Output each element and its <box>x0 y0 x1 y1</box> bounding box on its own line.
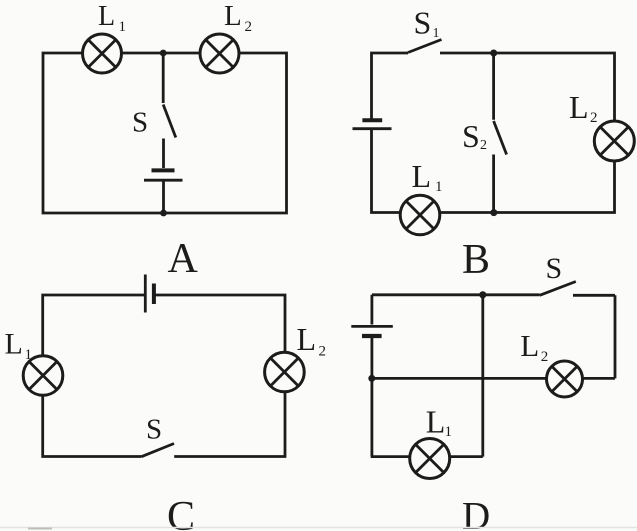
svg-text:L: L <box>569 89 589 125</box>
svg-text:1: 1 <box>119 19 127 35</box>
svg-text:C: C <box>167 494 195 531</box>
battery (circuit A) short thick plate <box>152 168 175 172</box>
wire: top wire right part (circuit D) <box>573 294 615 297</box>
svg-text:1: 1 <box>435 179 443 195</box>
node: bottom junction (circuit A) <box>160 210 167 217</box>
lamp L1 (circuit A) <box>83 34 122 73</box>
lamp L1 (circuit C) <box>23 356 63 396</box>
battery (circuit C) long thin plate <box>144 275 147 313</box>
svg-text:L: L <box>5 327 23 360</box>
svg-text:2: 2 <box>245 19 253 35</box>
svg-text:A: A <box>168 236 199 282</box>
svg-text:S: S <box>546 252 563 285</box>
svg-text:L: L <box>426 404 446 440</box>
svg-text:S: S <box>132 107 148 139</box>
wire: middle branch upper segment (circuit B) <box>492 53 495 120</box>
svg-text:S: S <box>462 118 480 154</box>
wire: middle vertical wire from top junction to bottom (circuit D) <box>481 295 484 457</box>
svg-text:B: B <box>462 237 490 283</box>
battery (circuit A) long thin plate <box>144 179 183 182</box>
lamp L2 (circuit C) <box>265 352 305 392</box>
node: top junction (circuit D) <box>479 291 486 298</box>
lamp L1 (circuit B) <box>400 195 440 235</box>
lamp L2 (circuit B) <box>594 121 634 161</box>
svg-text:1: 1 <box>445 424 453 440</box>
svg-text:L: L <box>98 1 115 32</box>
lamp L1 (circuit D) <box>410 439 450 479</box>
lamp L2 (circuit A) <box>200 34 239 73</box>
svg-text:2: 2 <box>319 343 327 359</box>
svg-text:S: S <box>414 5 432 41</box>
svg-text:1: 1 <box>25 347 33 363</box>
wire: outline of circuit B with gap for switch S1 <box>372 53 615 213</box>
switch S blade (circuit A) <box>163 105 176 138</box>
battery (circuit B) long thin plate <box>353 127 392 130</box>
battery (circuit C) short thick plate <box>152 284 156 305</box>
battery (circuit B) short thick plate <box>362 118 382 122</box>
wire: top wire left part (circuit D) <box>372 293 540 296</box>
wire: middle branch between switch and battery <box>162 139 165 169</box>
node: top junction (circuit A) <box>160 50 167 57</box>
svg-text:D: D <box>462 495 490 531</box>
switch S2 blade (circuit B) <box>494 121 507 155</box>
wire: left edge lower segment (circuit D) <box>370 338 373 457</box>
wire: rectangle loop of circuit A <box>43 53 287 213</box>
wire: middle branch lower segment (circuit B) <box>492 155 495 213</box>
wire: bottom wire (circuit D) <box>371 455 483 458</box>
svg-text:S: S <box>146 414 162 446</box>
svg-text:L: L <box>520 328 539 363</box>
lamp L2 (circuit D) <box>547 361 583 397</box>
switch S1 blade (circuit B) <box>408 40 442 53</box>
battery (circuit D) long thin plate <box>351 325 393 328</box>
wire: left edge upper segment (circuit D) <box>370 295 373 325</box>
wire: right edge (circuit D) <box>614 295 617 378</box>
wire: outline of circuit C with gaps for battery and switch S <box>43 295 285 457</box>
wire: middle branch battery to bottom wire <box>162 182 165 214</box>
node: left junction on middle wire (circuit D) <box>368 375 375 382</box>
svg-text:1: 1 <box>433 26 440 41</box>
node: top junction (circuit B) <box>490 50 497 57</box>
svg-text:L: L <box>224 0 242 32</box>
svg-text:2: 2 <box>480 138 487 153</box>
svg-text:L: L <box>412 158 432 194</box>
node: bottom junction (circuit B) <box>490 209 497 216</box>
svg-text:2: 2 <box>541 349 549 365</box>
svg-text:2: 2 <box>590 110 598 126</box>
switch S blade (circuit C) <box>141 444 174 457</box>
svg-text:L: L <box>297 321 317 357</box>
wire: middle branch upper segment (junction to switch) <box>162 53 165 103</box>
wire: middle horizontal wire (circuit D) <box>372 377 615 380</box>
battery (circuit D) short thick plate <box>362 334 382 338</box>
switch S blade (circuit D) <box>540 282 576 296</box>
